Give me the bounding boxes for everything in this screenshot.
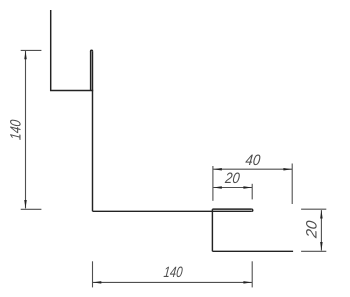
bottom dim 140 extension line left bbox=[92, 261, 94, 287]
right dim 20 arrow up bbox=[320, 210, 323, 219]
wire: profile main bottom horizontal bbox=[93, 210, 252, 212]
left dim 140 extension line bottom bbox=[21, 208, 42, 210]
bottom dim 140 extension line right bbox=[251, 261, 253, 287]
right dim 20 arrow down bbox=[320, 242, 323, 251]
wire: profile hem upturn inner line bbox=[90, 51, 92, 91]
right dim 20 extension line bottom bbox=[301, 250, 326, 252]
left dim 140 arrow down bbox=[24, 200, 27, 209]
right dim 20 extension line top bbox=[301, 208, 326, 210]
top dim extension line x213 bbox=[212, 166, 214, 201]
left dim 140 arrow up bbox=[24, 51, 27, 60]
wire: profile hem fold-back top line bbox=[212, 208, 251, 210]
top dim extension line x292 bbox=[291, 164, 293, 205]
left dim 140 dimension line bbox=[25, 51, 27, 208]
wire: profile main web vertical bbox=[92, 51, 94, 211]
wire: profile bottom flange horizontal bbox=[212, 250, 293, 252]
svg-text:40: 40 bbox=[245, 152, 262, 169]
right dim 20 dimension line bbox=[320, 210, 322, 250]
top dim 40 arrow right bbox=[283, 168, 292, 171]
top dim extension line x252 bbox=[251, 184, 253, 200]
top dim 20 arrow right bbox=[243, 186, 252, 189]
wire: profile step-down vertical bbox=[211, 209, 213, 251]
svg-text:140: 140 bbox=[7, 119, 24, 141]
svg-text:140: 140 bbox=[163, 264, 184, 281]
bottom dim 140 arrow right bbox=[243, 281, 252, 284]
svg-text:20: 20 bbox=[224, 169, 241, 186]
top dim 40 dimension line bbox=[213, 168, 292, 170]
svg-text:20: 20 bbox=[304, 219, 321, 239]
left dim 140 extension line top bbox=[21, 49, 42, 51]
bottom dim 140 dimension line bbox=[93, 281, 252, 283]
top dim 20 dimension line bbox=[213, 187, 252, 189]
wire: profile top flange vertical + bottom bend bbox=[51, 10, 93, 91]
top dim 40 arrow left bbox=[213, 168, 222, 171]
bottom dim 140 arrow left bbox=[93, 281, 102, 284]
top dim 20 arrow left bbox=[213, 186, 222, 189]
wire: hem fold right end cap bbox=[252, 209, 253, 211]
wire: profile top fold cap bbox=[91, 49, 93, 52]
